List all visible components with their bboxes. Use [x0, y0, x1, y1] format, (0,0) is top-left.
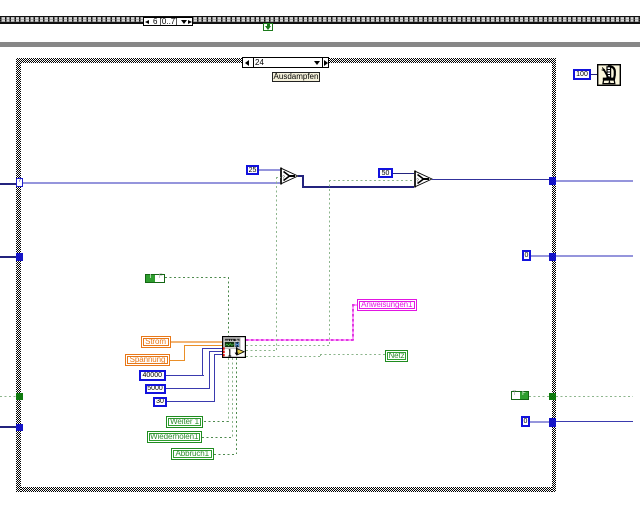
local variable Abbruch1: [171, 448, 214, 460]
local variable Anweisungen1: [357, 299, 417, 311]
wire: 40000 to subVI: [166, 375, 204, 376]
tunnel H (right border, blue): [549, 418, 557, 427]
wire: tunnel A to select U1 f input: [23, 182, 280, 184]
wire: 0 to tunnel H: [530, 421, 549, 423]
wire: tunnel F output (rightward): [556, 255, 633, 257]
tunnel B (left border, blue): [16, 253, 23, 261]
wire: Wiederholen1 to subVI bottom: [232, 358, 233, 438]
local variable Spannung: [125, 354, 170, 367]
wire: FALSE constant to tunnel G: [529, 396, 549, 397]
wire: 100 to Wait-ms node: [591, 74, 598, 75]
local variable Netz: [385, 350, 408, 362]
numeric constant 100: [573, 69, 591, 80]
tunnel G (right border, green boolean): [549, 393, 557, 400]
wire: 0 to tunnel F: [531, 255, 549, 257]
case label Ausdampfen: [272, 72, 320, 82]
wire: numeric into left tunnel B: [0, 256, 16, 258]
local variable Wiederholen1: [147, 431, 202, 443]
wire: Abbruch1 to subVI bottom: [236, 358, 237, 455]
tunnel C (left border, green boolean): [16, 393, 23, 400]
numeric constant 0 (lower): [521, 416, 530, 427]
numeric constant 25: [246, 165, 259, 175]
wire: 50 to select U2 t input: [393, 173, 414, 175]
wire: subVI boolean to select U1 s input: [246, 350, 276, 351]
gray divider band: [0, 42, 640, 47]
wire: tunnel H output (rightward): [556, 421, 633, 422]
FALSE boolean constant: [511, 391, 529, 400]
wire: subVI string output to Anweisungen1: [246, 339, 354, 341]
tunnel A (left border, unwired ?): [16, 178, 23, 187]
Wait Until Next ms Multiple node: [597, 64, 621, 86]
wire: numeric into left tunnel D: [0, 426, 16, 428]
sequence structure filmstrip border (top): [0, 16, 640, 24]
wire: U2 output to right tunnel E: [432, 179, 549, 180]
wire: Strom to subVI: [171, 341, 223, 343]
numeric constant 50: [378, 168, 393, 178]
wire: 30 to subVI: [167, 401, 215, 402]
wire: subVI boolean to select U2 s input: [246, 345, 330, 346]
numeric constant 0 (upper): [522, 250, 531, 261]
sequence local tunnel (green down arrow): [263, 23, 273, 32]
local variable Strom: [141, 336, 171, 348]
case selector 24: [242, 57, 329, 68]
numeric constant 40000: [139, 370, 166, 381]
wire: boolean into left tunnel C: [0, 396, 16, 397]
wire: tunnel G output boolean (rightward): [556, 396, 633, 397]
select function U2: [414, 170, 433, 189]
numeric constant 30: [153, 397, 167, 407]
wire: 5000 to subVI: [166, 388, 210, 389]
wire: 25 to select U1 t input: [259, 169, 280, 171]
TRUE boolean constant: [145, 274, 165, 283]
wire: numeric into left tunnel A: [0, 183, 16, 185]
wire: Weiter 1 to subVI bottom: [228, 358, 229, 422]
case structure hatched border: [16, 58, 556, 63]
tunnel E (right border, blue): [549, 177, 557, 186]
wire: subVI boolean to Netz: [246, 356, 320, 357]
wire: TRUE constant to subVI top terminal: [165, 277, 229, 278]
numeric constant 5000: [145, 384, 166, 394]
sequence selector 6 [0..7]: [143, 17, 193, 27]
subVI U3 (display VI): [222, 336, 246, 358]
tunnel D (left border, blue): [16, 424, 23, 431]
tunnel F (right border, blue): [549, 253, 557, 262]
wire: Spannung to subVI: [170, 360, 185, 361]
wire: U1 output to U2 f input: [298, 175, 304, 177]
local variable Weiter 1: [166, 416, 203, 428]
select function U1: [280, 167, 299, 185]
wire: tunnel E output (rightward): [556, 180, 633, 182]
